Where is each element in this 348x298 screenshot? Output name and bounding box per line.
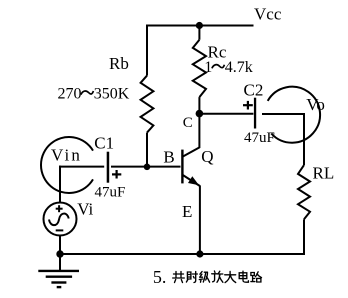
wire RL bottom	[303, 219, 305, 255]
source Vi minus sign	[56, 229, 64, 231]
caption char 级	[199, 272, 209, 283]
svg-text:Vcc: Vcc	[254, 5, 282, 24]
ground symbol	[38, 271, 79, 287]
input Vin circle	[41, 137, 93, 193]
wire Rb bottom	[146, 133, 148, 168]
svg-text:1: 1	[204, 59, 212, 76]
caption char 共	[173, 272, 185, 283]
resistor RL	[298, 165, 310, 219]
transistor Q collector diagonal	[182, 147, 200, 157]
source Vi sine wave	[49, 214, 69, 226]
source Vi circle	[44, 203, 77, 236]
caption char 电	[239, 271, 248, 282]
source Vi plus sign	[56, 205, 63, 212]
wire base left segment	[59, 166, 104, 168]
node emitter bottom junction dot	[196, 250, 203, 257]
transistor Q emitter arrow	[188, 176, 199, 185]
svg-text:5.: 5.	[153, 267, 167, 287]
caption char 射	[186, 272, 197, 283]
svg-text:C1: C1	[94, 134, 114, 153]
wire left branch vertical	[59, 166, 61, 203]
svg-text:270: 270	[58, 85, 82, 102]
svg-text:RL: RL	[313, 164, 335, 183]
svg-text:Q: Q	[201, 147, 213, 166]
wire Vcc top rail	[146, 25, 254, 27]
svg-text:47uF: 47uF	[244, 130, 275, 146]
resistor Rc	[193, 40, 206, 97]
transistor Q base bar	[181, 150, 183, 184]
wire Rc bottom to node C	[198, 97, 200, 114]
resistor Rb	[141, 76, 154, 133]
svg-text:C: C	[183, 115, 193, 131]
caption text 共射级放大电路	[173, 271, 262, 283]
svg-text:350K: 350K	[94, 85, 130, 102]
node C junction dot	[196, 110, 204, 118]
wire collector vertical	[198, 114, 200, 148]
capacitor C1 plate	[107, 152, 110, 183]
svg-text:4.7k: 4.7k	[225, 59, 253, 76]
svg-text:Rb: Rb	[109, 54, 129, 73]
caption char 放	[212, 271, 223, 282]
capacitor C1 plus sign	[112, 170, 121, 179]
capacitor C2 plate	[254, 98, 256, 129]
caption char 大	[225, 271, 236, 282]
transistor Q emitter diagonal	[182, 175, 200, 187]
svg-text:C2: C2	[244, 81, 264, 100]
wire Rb top	[146, 25, 148, 76]
svg-text:Vo: Vo	[306, 95, 325, 114]
capacitor C2 plus sign	[243, 101, 253, 110]
wire Vo corner down to RL	[303, 113, 305, 165]
node B junction dot	[144, 164, 151, 171]
wire base right segment	[111, 166, 181, 168]
wire emitter vertical	[199, 186, 201, 255]
node Vcc junction dot	[196, 22, 203, 29]
svg-text:Vi: Vi	[77, 200, 93, 219]
svg-text:Vin: Vin	[51, 146, 82, 165]
caption char 路	[251, 272, 262, 282]
output Vo circle	[268, 87, 320, 143]
svg-text:47uF: 47uF	[95, 185, 126, 201]
svg-text:B: B	[163, 148, 174, 167]
wire C2 to Vo corner	[262, 113, 305, 115]
wire node C to C2	[199, 113, 253, 115]
wire Vi to ground node	[59, 235, 61, 254]
wire bottom rail	[60, 253, 305, 255]
wire Rc top	[198, 26, 200, 40]
svg-text:E: E	[182, 202, 192, 221]
node ground junction dot	[56, 250, 63, 257]
wire ground stem	[59, 254, 61, 270]
